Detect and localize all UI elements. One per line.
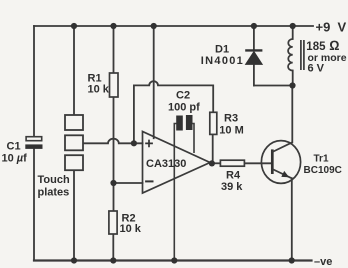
svg-text:–ve: –ve — [314, 256, 332, 268]
junction dot rail/relay — [290, 23, 296, 29]
svg-text:10 µf: 10 µf — [2, 153, 28, 165]
svg-text:+9: +9 — [316, 20, 331, 35]
svg-text:Touch: Touch — [38, 174, 70, 186]
wire rail to R1 — [113, 26, 115, 73]
wire R2 to bottom rail — [112, 234, 114, 261]
svg-text:39 k: 39 k — [221, 181, 243, 193]
touch plate square 2 — [65, 135, 83, 150]
op-amp + input symbol — [145, 140, 153, 148]
svg-text:10 k: 10 k — [88, 84, 110, 96]
svg-text:plates: plates — [38, 187, 70, 199]
diode D1 cathode bar — [245, 49, 262, 51]
capacitor C2 right plate — [186, 115, 193, 130]
svg-text:10 M: 10 M — [219, 124, 243, 136]
relay core line 2 — [303, 40, 305, 70]
junction dot bottom rail/C2 lead — [171, 257, 177, 263]
svg-text:CA3130: CA3130 — [146, 158, 186, 170]
capacitor C2 right lead to op-amp pin — [192, 124, 194, 154]
svg-text:100 pf: 100 pf — [168, 102, 200, 114]
wire D1 junction to collector — [291, 86, 293, 143]
svg-text:R3: R3 — [224, 113, 238, 125]
svg-text:D1: D1 — [215, 43, 229, 55]
junction dot rail/V+ wire — [151, 23, 157, 29]
svg-text:6 V: 6 V — [308, 63, 325, 75]
wire R4 to transistor base — [244, 162, 271, 164]
wire rail to touch plate 1 — [73, 26, 75, 115]
touch plate square 3 — [65, 155, 83, 170]
relay coil loops — [288, 39, 293, 71]
wire top supply rail — [34, 25, 313, 27]
wire rail to relay coil — [292, 26, 294, 39]
svg-text:C1: C1 — [7, 141, 21, 153]
resistor R3 — [210, 112, 217, 134]
junction dot bottom rail/touch wire — [71, 257, 77, 263]
resistor R2 — [109, 211, 117, 234]
transistor collector lead — [272, 142, 292, 152]
junction dot relay/D1/collector node — [289, 82, 295, 88]
junction dot - input node — [110, 180, 116, 186]
capacitor C2 left plate — [176, 116, 183, 131]
capacitor C1 bottom plate — [25, 144, 42, 149]
wire relay coil bottom to D1 junction — [292, 71, 294, 86]
svg-text:C2: C2 — [176, 90, 190, 102]
wire rail to D1 cathode — [253, 26, 255, 49]
wire D1 bottom horizontal — [254, 85, 293, 87]
wire output node to R4 — [212, 162, 221, 164]
wire inverting input from R1/R2 junction — [114, 182, 143, 184]
svg-text:10 k: 10 k — [120, 223, 142, 235]
svg-text:V: V — [338, 20, 347, 35]
svg-text:R4: R4 — [226, 170, 241, 182]
wire D1 anode down — [253, 64, 255, 85]
resistor R4 — [220, 160, 244, 166]
wire rail to op-amp V+ pin — [153, 26, 155, 138]
resistor R1 — [110, 73, 119, 97]
transistor base bar — [271, 149, 274, 174]
diode D1 triangle — [246, 52, 263, 65]
wire C1 to bottom rail — [33, 149, 35, 261]
wire touch plate 2 to op-amp + input (hop over R1 wire) — [83, 139, 143, 144]
svg-text:BC109C: BC109C — [304, 165, 342, 176]
touch plate square 1 — [65, 115, 83, 130]
wire touch plate 3 to bottom rail — [73, 170, 75, 261]
transistor Q1 circle — [261, 141, 300, 184]
op-amp - input symbol — [145, 180, 153, 182]
svg-text:Tr1: Tr1 — [314, 153, 329, 164]
junction dot rail/R1 wire — [110, 23, 116, 29]
junction dot output node — [209, 160, 215, 166]
junction dot bottom rail/R2 — [110, 257, 116, 263]
junction dot bottom rail/emitter — [289, 257, 295, 263]
transistor emitter arrow — [281, 171, 289, 177]
wire R3 bottom to output node — [212, 134, 214, 163]
wire emitter to bottom rail — [291, 178, 293, 260]
op-amp U1 CA3130 triangle — [143, 132, 211, 194]
relay core line 1 — [300, 40, 302, 70]
capacitor C2 left lead to 0V rail — [174, 124, 176, 261]
wire bottom 0V rail — [34, 259, 312, 261]
junction dot rail/touch wire — [71, 23, 77, 29]
capacitor C1 top plate — [26, 137, 42, 141]
svg-text:IN4001: IN4001 — [201, 55, 244, 67]
junction dot + input node — [131, 140, 137, 146]
wire R1 to R2 junction — [113, 97, 115, 211]
junction dot rail/D1 — [251, 23, 257, 29]
transistor emitter lead — [272, 169, 292, 178]
wire left vertical (rail to C1) — [33, 26, 35, 137]
wire feedback: output node up through R3 and over to + input (hop over V+ wire) — [134, 81, 213, 143]
